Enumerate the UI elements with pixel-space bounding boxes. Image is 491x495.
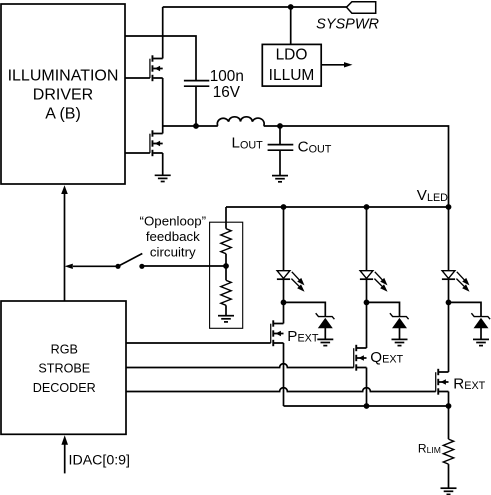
svg-text:100n: 100n <box>210 68 244 85</box>
svg-text:ILLUMINATION: ILLUMINATION <box>8 68 119 85</box>
svg-text:16V: 16V <box>213 84 241 101</box>
svg-text:STROBE: STROBE <box>38 362 90 376</box>
svg-text:circuitry: circuitry <box>150 245 196 260</box>
svg-text:“Openloop”: “Openloop” <box>140 214 207 229</box>
svg-text:feedback: feedback <box>146 229 200 244</box>
svg-text:LDO: LDO <box>276 47 308 64</box>
svg-text:IDAC[0:9]: IDAC[0:9] <box>69 452 131 468</box>
svg-text:DRIVER: DRIVER <box>33 87 93 104</box>
svg-text:RGB: RGB <box>51 343 78 357</box>
svg-text:A (B): A (B) <box>45 106 81 123</box>
svg-text:ILLUM: ILLUM <box>269 67 315 84</box>
svg-text:SYSPWR: SYSPWR <box>316 17 379 33</box>
svg-text:DECODER: DECODER <box>33 381 96 395</box>
